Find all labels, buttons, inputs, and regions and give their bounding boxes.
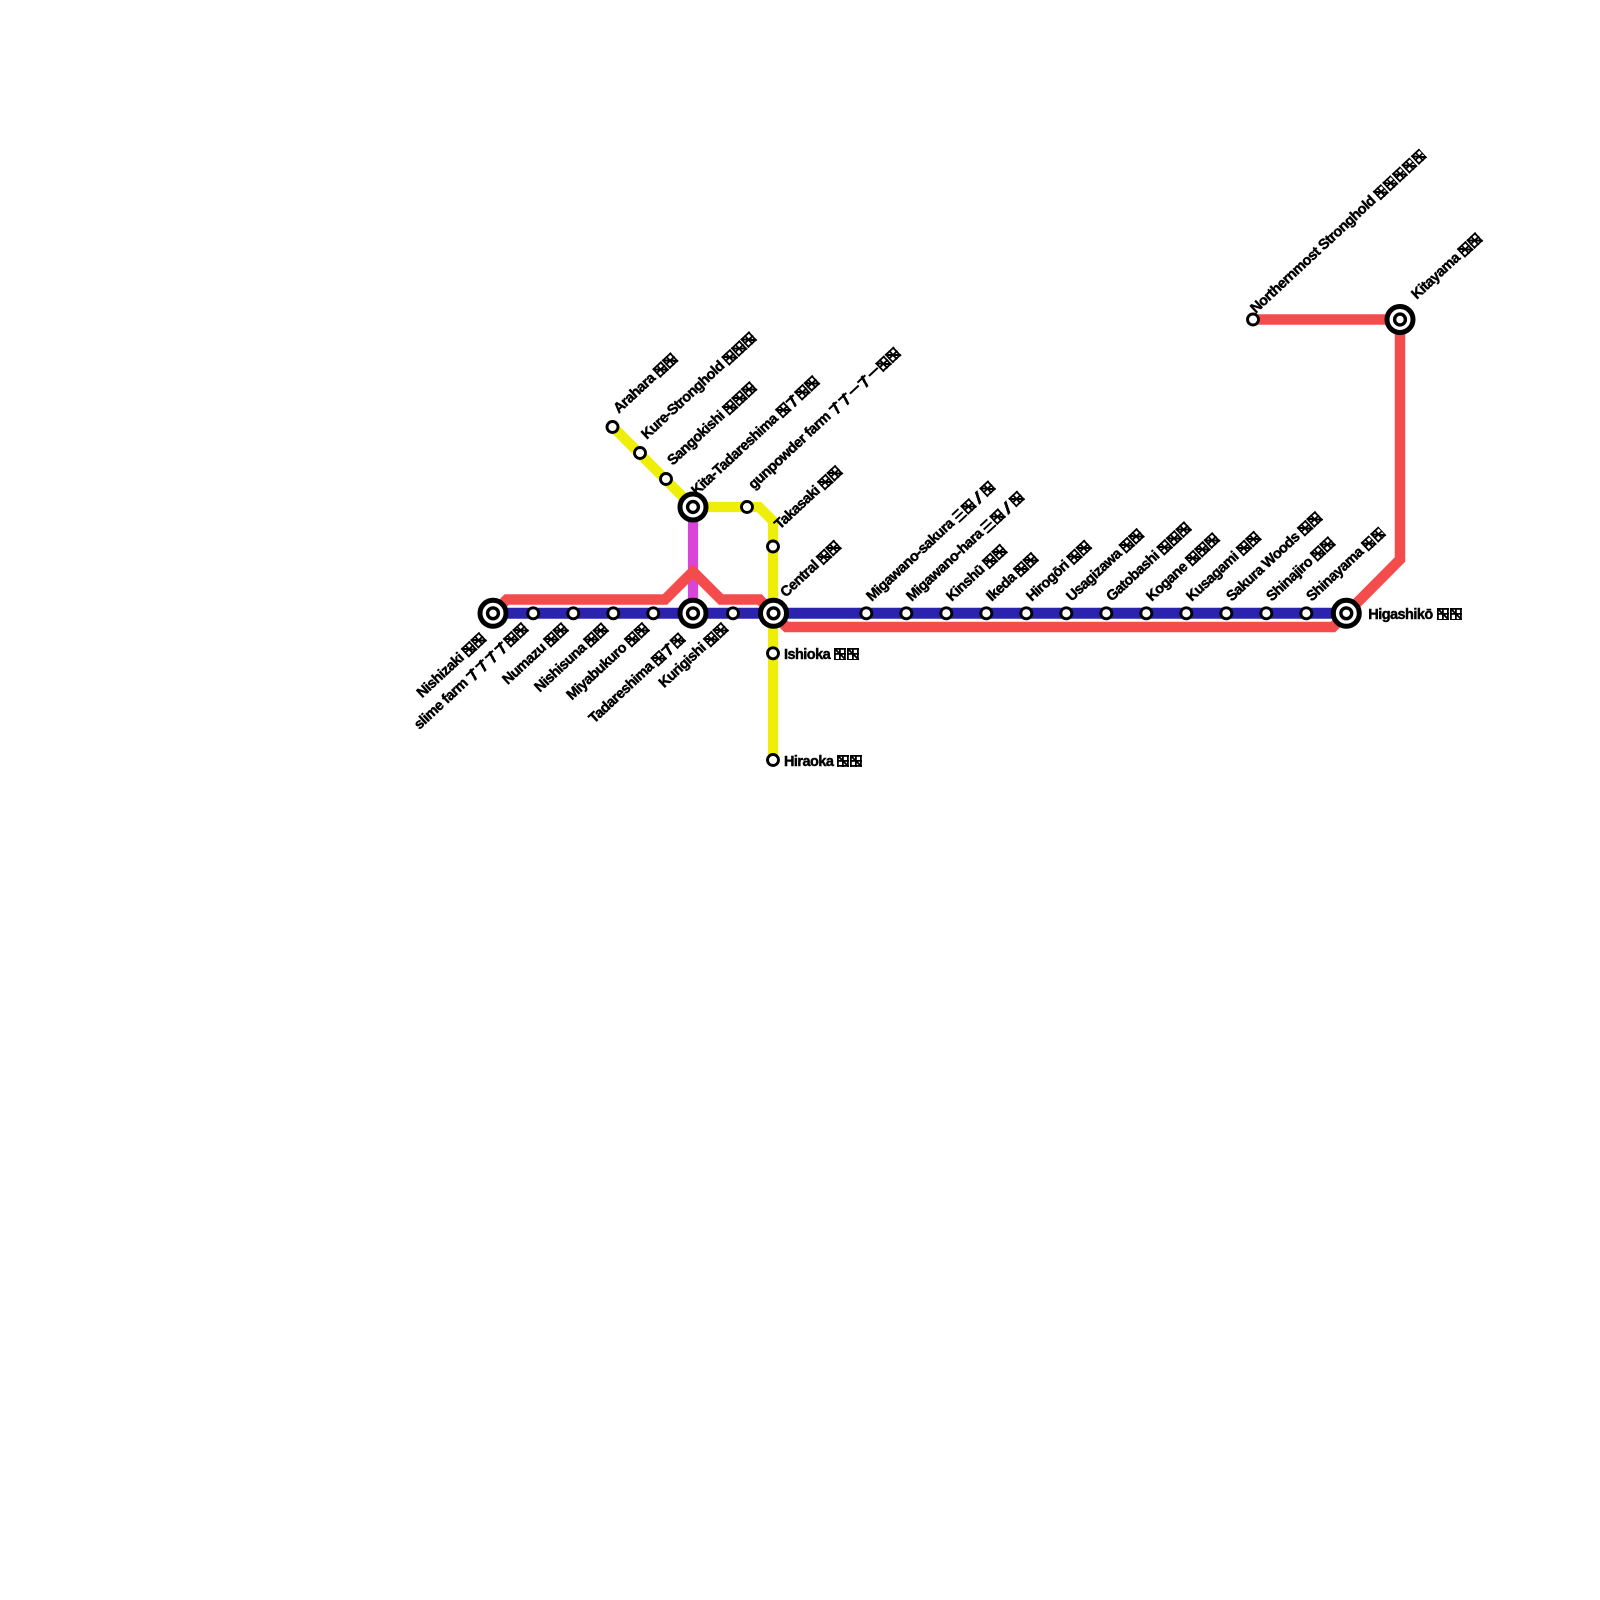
node station Sakura Woods	[1221, 608, 1232, 619]
node label Migawano-sakura	[864, 478, 999, 605]
node station Migawano-sakura	[861, 608, 872, 619]
node station Nishisuna	[608, 608, 619, 619]
node interchange Central	[761, 600, 787, 626]
node label Sakura Woods	[1224, 509, 1325, 605]
node label Migawano-hara	[904, 488, 1028, 604]
node station Migawano-hara	[901, 608, 912, 619]
node station Hirogori	[1021, 608, 1032, 619]
node station Kure-Stronghold	[635, 448, 646, 459]
node label Kurigishi	[656, 620, 731, 691]
node station Kinshu	[941, 608, 952, 619]
node station Takasaki	[768, 541, 779, 552]
node station Gatobashi	[1101, 608, 1112, 619]
node label Kure-Stronghold	[638, 329, 758, 442]
node station Ishioka	[768, 648, 779, 659]
node station Kogane	[1141, 608, 1152, 619]
node interchange Nishizaki	[480, 600, 506, 626]
node label Kinshū	[944, 542, 1010, 605]
node label Hiraoka	[784, 754, 863, 770]
node label Higashikō	[1368, 607, 1462, 623]
node label Tadareshima	[586, 630, 688, 727]
node label Sangokishi	[664, 379, 759, 469]
wire: red line Nishizaki to Northernmost Stronghold	[493, 320, 1400, 628]
node label Kita-Tadareshima	[689, 373, 822, 499]
node station Shinayama	[1301, 608, 1312, 619]
node label Hirogōri	[1024, 538, 1095, 605]
node label Nishizaki	[414, 630, 489, 701]
node label Kusagami	[1184, 529, 1264, 605]
node label Shinajiro	[1264, 534, 1338, 605]
node station slime farm	[528, 608, 539, 619]
node station Hiraoka	[768, 755, 779, 766]
node station Northernmost Stronghold	[1248, 314, 1259, 325]
node station Kurigishi	[728, 608, 739, 619]
node station Sangokishi	[661, 474, 672, 485]
node station Miyabukuro	[648, 608, 659, 619]
node label Nishisuna	[532, 620, 612, 696]
node label Miyabukuro	[563, 620, 651, 703]
node station Arahara	[607, 422, 618, 433]
node label Takasaki	[771, 463, 844, 533]
node label Ikeda	[984, 550, 1042, 605]
node label Usagizawa	[1064, 526, 1147, 605]
wire: magenta line Kita-Tadareshima to Tadareshima	[688, 507, 698, 613]
node label Arahara	[611, 350, 681, 416]
node label gunpowder farm	[745, 345, 903, 493]
node label Kitayama	[1409, 230, 1485, 303]
node station Numazu	[568, 608, 579, 619]
node label Kogane	[1144, 530, 1223, 605]
wire: blue line Nishizaki to Higashiko	[493, 608, 1346, 619]
node station Usagizawa	[1061, 608, 1072, 619]
node interchange Higashiko	[1333, 600, 1359, 626]
node label Gatobashi	[1104, 519, 1194, 605]
node station Shinajiro	[1261, 608, 1272, 619]
node label Numazu	[500, 620, 571, 688]
node label Shinayama	[1304, 524, 1389, 605]
node label Ishioka	[784, 647, 860, 663]
wire: yellow line Arahara to Hiraoka	[613, 427, 774, 761]
node label Northernmost Stronghold	[1248, 146, 1430, 316]
node station Ikeda	[981, 608, 992, 619]
node interchange Kita-Tadareshima	[680, 494, 706, 520]
node interchange Tadareshima	[680, 600, 706, 626]
node label slime farm	[412, 620, 532, 733]
node label Central	[778, 538, 844, 601]
node station Kusagami	[1181, 608, 1192, 619]
node interchange Kitayama	[1387, 307, 1413, 333]
node station gunpowder farm	[742, 502, 753, 513]
